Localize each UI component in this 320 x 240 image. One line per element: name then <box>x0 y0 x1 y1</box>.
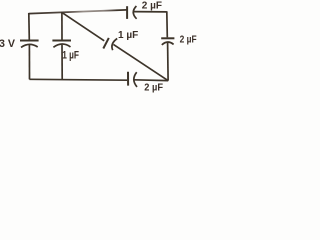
svg-text:2 µF: 2 µF <box>142 0 162 11</box>
svg-text:2 µF: 2 µF <box>144 82 163 93</box>
svg-text:3 V: 3 V <box>0 38 16 50</box>
svg-text:2 µF: 2 µF <box>180 34 197 45</box>
svg-text:1 µF: 1 µF <box>118 30 138 41</box>
svg-text:1 µF: 1 µF <box>62 50 79 62</box>
